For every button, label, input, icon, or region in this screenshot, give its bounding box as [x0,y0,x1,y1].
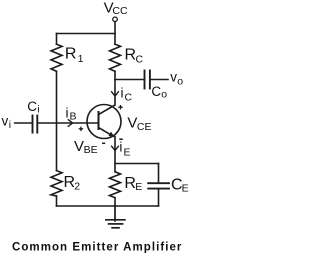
resistor RE [110,172,121,198]
label vi input [2,114,12,132]
svg-text:R: R [125,46,137,63]
svg-text:E: E [124,147,131,159]
wire CE lower lead [158,190,160,207]
svg-text:v: v [170,70,177,85]
label R2 value [64,174,81,193]
svg-text:R: R [124,175,136,192]
label VCC [104,0,128,17]
arrow iC chevron [112,92,119,96]
wire emitter vertical [114,137,116,172]
label VBE plus sign [79,127,83,131]
svg-text:C: C [151,84,161,99]
svg-text:BE: BE [84,144,98,156]
arrow iB chevron [68,120,72,127]
resistor R1 [51,44,62,71]
wire left branch lower (R2 to ground rail) [56,196,58,206]
ground symbol [106,206,125,228]
node VCC terminal [113,17,118,22]
svg-text:Common Emitter Amplifier: Common Emitter Amplifier [12,242,182,254]
label RE value [124,175,142,193]
svg-text:i: i [119,140,122,155]
wire left branch upper (rail to R1) [56,34,58,45]
svg-text:i: i [121,86,124,101]
wire ground rail [57,205,159,207]
arrow iE chevron [112,146,119,150]
wire input lead [15,122,32,124]
transistor Q1 emitter diagonal with arrow [99,128,115,138]
svg-text:i: i [66,106,69,121]
resistor RC [110,44,121,71]
label iC current [121,86,133,104]
label R1 value [65,45,84,65]
label CE value [171,177,189,195]
svg-text:o: o [161,89,167,101]
wire emitter bypass tap [115,163,159,165]
wire left branch middle (R1 to R2) [56,71,58,170]
wire output tap [115,79,144,81]
svg-text:v: v [2,114,9,129]
transistor Q1 base bar [98,112,100,129]
svg-text:1: 1 [78,53,84,65]
wire collector vertical [99,71,116,114]
svg-text:E: E [182,182,189,194]
svg-text:o: o [177,76,183,88]
svg-text:CC: CC [112,5,128,17]
label VBE [74,138,98,156]
resistor R2 [51,171,62,196]
wire CE upper lead [158,164,160,183]
wire emitter lower (RE to ground rail) [114,198,116,206]
svg-text:V: V [74,138,84,155]
svg-text:B: B [70,111,77,123]
wire VCC stub down to RC [114,22,116,45]
label iE current [119,140,130,159]
svg-text:R: R [65,45,77,62]
label iB current [66,106,77,123]
label RC value [125,46,144,65]
transistor Q1 body circle [87,105,121,139]
svg-text:C: C [125,92,133,104]
label VCE minus sign [119,138,123,140]
label vo output [170,70,183,88]
capacitor CE [148,183,169,188]
svg-text:C: C [136,54,144,66]
label VBE minus sign [102,142,105,144]
label Ci value [27,99,39,115]
svg-text:E: E [135,181,142,193]
svg-text:2: 2 [74,181,80,193]
label VCE [127,114,151,133]
wire output lead [151,79,168,81]
wire base [38,122,98,124]
svg-text:i: i [37,104,39,116]
svg-text:i: i [9,119,11,131]
capacitor Co [145,71,150,89]
label VCE plus sign [118,105,122,109]
label Co value [151,84,167,100]
svg-text:CE: CE [137,121,152,133]
svg-text:C: C [27,99,37,114]
capacitor Ci [33,116,38,133]
wire top rail [57,33,116,35]
